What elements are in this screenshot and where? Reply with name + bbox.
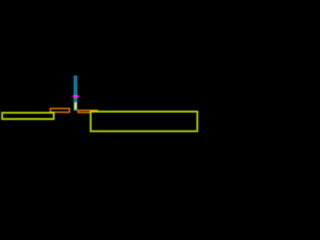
- cyan vertical cursor rect: [74, 76, 76, 110]
- yellow fill segment inside cursor: [74, 103, 76, 110]
- orange span bar 2: [78, 110, 97, 112]
- orange span bar 1: [50, 109, 69, 113]
- magenta tick marker: [73, 95, 79, 97]
- large green outlined bar: [91, 111, 198, 131]
- left green outlined bar: [2, 113, 54, 120]
